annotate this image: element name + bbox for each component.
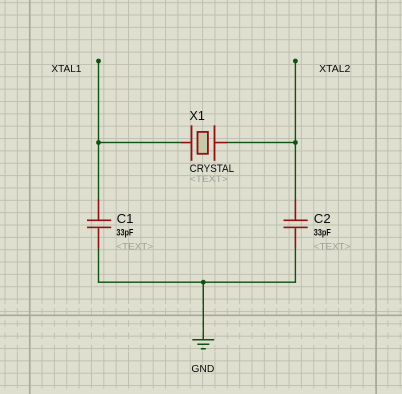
lead top [295, 200, 297, 220]
wire XTAL1 vertical [98, 61, 99, 200]
sheet border right [375, 0, 377, 394]
svg-text:XTAL2: XTAL2 [319, 64, 351, 75]
svg-text:C2: C2 [314, 211, 331, 226]
svg-text:C1: C1 [117, 211, 134, 226]
electrode right [214, 125, 216, 161]
svg-text:<TEXT>: <TEXT> [314, 241, 351, 251]
wire crystal row right [227, 142, 296, 143]
ground bar 1 [192, 339, 214, 341]
lead bottom [98, 228, 100, 248]
plate top [87, 220, 111, 222]
svg-text:GND: GND [191, 364, 214, 375]
node junction dot right crystal row [293, 140, 298, 145]
ground bar 2 [197, 344, 209, 346]
capacitor C2 [284, 200, 308, 249]
sheet border left [29, 0, 31, 394]
lead top [98, 200, 100, 220]
svg-text:33pF: 33pF [116, 227, 134, 237]
plate bottom [284, 227, 308, 229]
node XTAL2 junction dot [293, 59, 298, 64]
node junction dot left crystal row [96, 140, 101, 145]
pin stub left [181, 142, 191, 144]
plate bottom [87, 227, 111, 229]
crystal X1 [181, 125, 227, 161]
electrode left [191, 125, 193, 161]
wire bottom horizontal [98, 282, 296, 283]
wire ground vertical [203, 282, 204, 340]
svg-text:XTAL1: XTAL1 [51, 64, 81, 75]
wire crystal row left [98, 142, 182, 143]
capacitor C1 [87, 200, 111, 249]
wire C1 bottom [98, 249, 99, 283]
dotted-grid band bottom edge (redraw artifact) [0, 388, 402, 394]
sheet border bottom [0, 315, 402, 317]
svg-text:X1: X1 [190, 109, 205, 123]
plate top [284, 220, 308, 222]
svg-text:<TEXT>: <TEXT> [116, 241, 153, 251]
ground symbol [192, 339, 214, 350]
node ground junction dot [201, 280, 206, 285]
body [198, 132, 208, 154]
svg-text:<TEXT>: <TEXT> [190, 174, 228, 184]
pin stub right [215, 142, 227, 144]
dotted-grid band (redraw artifact) [0, 304, 402, 352]
svg-text:33pF: 33pF [314, 227, 332, 237]
wire XTAL2 vertical [295, 61, 296, 200]
wire C2 bottom [295, 249, 296, 283]
node XTAL1 junction dot [96, 59, 101, 64]
lead bottom [295, 228, 297, 248]
ground bar 3 [201, 348, 206, 350]
svg-text:CRYSTAL: CRYSTAL [190, 163, 235, 175]
